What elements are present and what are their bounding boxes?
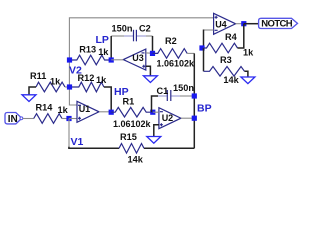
wire C1 left vertical from U2 inv node [152, 96, 159, 112]
wire U4 - input L to R4 node [204, 29, 214, 31]
designator R12 [78, 73, 95, 83]
svg-text:1k: 1k [96, 75, 107, 85]
resistor R15 [119, 144, 144, 154]
value 1k (R12) [96, 75, 107, 85]
value 150n (C1) [173, 83, 194, 93]
svg-text:R13: R13 [79, 45, 96, 55]
designator C2 [139, 23, 151, 33]
wire C2 row right [146, 35, 153, 37]
value 1.06102k (R2) [157, 59, 196, 69]
capacitor C2 [134, 30, 137, 42]
wire U1 + input stub [69, 118, 77, 120]
value 1k (R11) [50, 76, 61, 86]
node label HP [114, 86, 129, 98]
node U3 inverting input [150, 51, 155, 56]
value 1.06102k (R1) [113, 119, 152, 129]
node HP junction [109, 110, 114, 115]
svg-text:R11: R11 [30, 71, 46, 81]
designator R1 [123, 96, 135, 106]
svg-text:R14: R14 [36, 102, 54, 112]
resistor R11 [36, 82, 65, 92]
node junction V2/R13 left [67, 57, 72, 62]
svg-text:R4: R4 [225, 32, 238, 42]
value 14k (R3) [223, 75, 239, 85]
value 14k (R15) [128, 154, 144, 164]
designator R15 [120, 132, 137, 142]
value 1k (R13) [98, 47, 109, 57]
svg-text:BP: BP [197, 102, 212, 114]
port NOTCH [259, 18, 298, 29]
wire top loop (V2 net to U4 +) [69, 18, 213, 105]
wire R3 right lead [245, 71, 248, 77]
svg-text:R1: R1 [123, 96, 135, 106]
wire U3 inv input stub [146, 52, 153, 54]
svg-text:C2: C2 [139, 23, 151, 33]
pin C1 right lead [171, 95, 180, 97]
svg-text:1k: 1k [50, 76, 61, 86]
node label V2 [69, 64, 82, 76]
svg-text:IN: IN [8, 114, 18, 125]
svg-text:14k: 14k [128, 154, 144, 164]
wire R11 left lead to ground [29, 87, 36, 95]
svg-text:NOTCH: NOTCH [261, 19, 293, 30]
resistor R14 [34, 114, 62, 124]
pin C1 left lead [158, 95, 167, 97]
node label BP [197, 102, 212, 114]
svg-text:R15: R15 [120, 132, 137, 142]
ground at R3 [241, 77, 255, 84]
wire U4 - vertical down to R4 node [203, 30, 205, 49]
wire U4 output [236, 23, 244, 25]
svg-text:150n: 150n [173, 83, 194, 93]
resistor R12 [70, 82, 104, 92]
node U4 output junction [241, 21, 246, 26]
pin C2 right lead [137, 35, 146, 37]
wire bottom (V1 net through R15 to BP) [69, 147, 119, 149]
svg-text:R12: R12 [78, 73, 95, 83]
svg-text:R2: R2 [165, 36, 177, 46]
resistor R13 [70, 55, 112, 65]
svg-text:1.06102k: 1.06102k [157, 59, 196, 69]
designator R3 [220, 55, 232, 65]
value 1k (R4) [243, 48, 254, 58]
op-amp U4 (points right, + on top) [214, 13, 236, 34]
ground at U2 + input [147, 125, 161, 144]
svg-text:150n: 150n [112, 23, 133, 33]
wire R14 right lead [62, 118, 69, 120]
node label V1 [71, 136, 84, 148]
designator C1 [157, 86, 169, 96]
wire R11 right lead [65, 86, 70, 88]
svg-text:R3: R3 [220, 55, 232, 65]
svg-text:14k: 14k [223, 75, 239, 85]
op-amp U1 (points right) [77, 101, 99, 122]
wire R12 right lead + corner down to HP node [104, 87, 111, 112]
designator R11 [30, 71, 46, 81]
wire U3 output to LP node [111, 59, 123, 61]
svg-text:U4: U4 [215, 20, 227, 30]
resistor R3 [204, 67, 245, 77]
node junction R11/R12/V2 vertical [67, 84, 72, 89]
wire C2 right vertical to U3 inv node [152, 36, 154, 53]
capacitor C1 [167, 90, 171, 101]
wire R4/R3 vertical [203, 48, 205, 71]
wire R2 right lead [187, 52, 194, 54]
pin C2 left lead [124, 35, 133, 37]
node LP label [96, 34, 109, 46]
node LP junction (R13 right) [109, 57, 114, 62]
wire U2 inv input stub [153, 111, 159, 113]
ground at R11 [22, 95, 36, 102]
wire C1 right [180, 95, 194, 97]
node U1 + input junction [66, 116, 71, 121]
svg-text:1k: 1k [58, 105, 69, 115]
node U2 inverting input [150, 110, 155, 115]
resistor R1 [111, 107, 153, 117]
designator R13 [79, 45, 96, 55]
svg-text:1.06102k: 1.06102k [113, 119, 152, 129]
designator R14 [36, 102, 54, 112]
wire U2 output to BP node [181, 117, 194, 119]
node C1 right junction [192, 93, 197, 98]
wire U1 output to HP node [99, 111, 111, 113]
svg-text:1k: 1k [243, 48, 254, 58]
svg-text:LP: LP [96, 34, 109, 46]
op-amp U2 (points right) [159, 108, 181, 129]
designator R4 [225, 32, 238, 42]
wire C2 row left [111, 35, 124, 37]
wire R4 right lead and corner up [238, 24, 244, 48]
svg-text:U2: U2 [162, 113, 174, 123]
svg-text:V1: V1 [71, 136, 84, 148]
node BP junction [192, 116, 197, 121]
svg-text:C1: C1 [157, 86, 169, 96]
value label 150n (C2) [112, 23, 133, 33]
resistor R4 [204, 43, 238, 53]
wire IN lead [23, 118, 34, 120]
wire right vertical (R2 corner down through C1 and BP to bottom) [193, 53, 195, 148]
wire LP vertical (C2 left down to LP node) [110, 36, 112, 60]
svg-text:1k: 1k [98, 47, 109, 57]
ground at U3 + input [143, 66, 157, 82]
designator R2 [165, 36, 177, 46]
node R4/R3 junction [199, 45, 204, 50]
svg-text:U3: U3 [132, 53, 144, 63]
wire node to NOTCH port [244, 23, 259, 25]
op-amp U3 (points left, inputs right) [123, 49, 146, 70]
port IN [5, 112, 23, 125]
value 1k (R14) [58, 105, 69, 115]
resistor R2 [153, 49, 188, 59]
wire V1 vertical (U1 + down to bottom wire) [68, 119, 70, 148]
